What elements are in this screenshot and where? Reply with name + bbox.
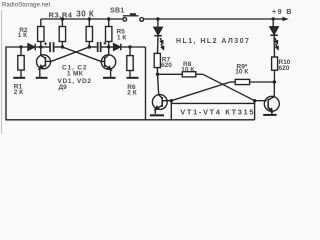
- svg-text:+9 В: +9 В: [272, 9, 293, 16]
- svg-text:SB1: SB1: [110, 8, 125, 15]
- svg-text:620: 620: [161, 62, 172, 69]
- svg-text:1 МК: 1 МК: [67, 70, 83, 77]
- svg-text:1 К: 1 К: [18, 32, 27, 39]
- svg-text:HL1, HL2 АЛ307: HL1, HL2 АЛ307: [176, 38, 250, 45]
- svg-text:10 К: 10 К: [235, 69, 248, 76]
- svg-text:1 К: 1 К: [117, 35, 126, 42]
- svg-text:10 К: 10 К: [181, 66, 194, 73]
- svg-text:R3,R4: R3,R4: [49, 10, 73, 19]
- svg-text:2 К: 2 К: [14, 89, 23, 96]
- svg-text:30 К: 30 К: [76, 9, 94, 18]
- svg-text:VT1-VT4 КТ315: VT1-VT4 КТ315: [180, 107, 255, 116]
- svg-text:620: 620: [279, 65, 290, 72]
- svg-text:2 К: 2 К: [127, 89, 136, 96]
- svg-text:Д9: Д9: [59, 84, 68, 91]
- svg-text:RadioStorage.net: RadioStorage.net: [2, 3, 51, 9]
